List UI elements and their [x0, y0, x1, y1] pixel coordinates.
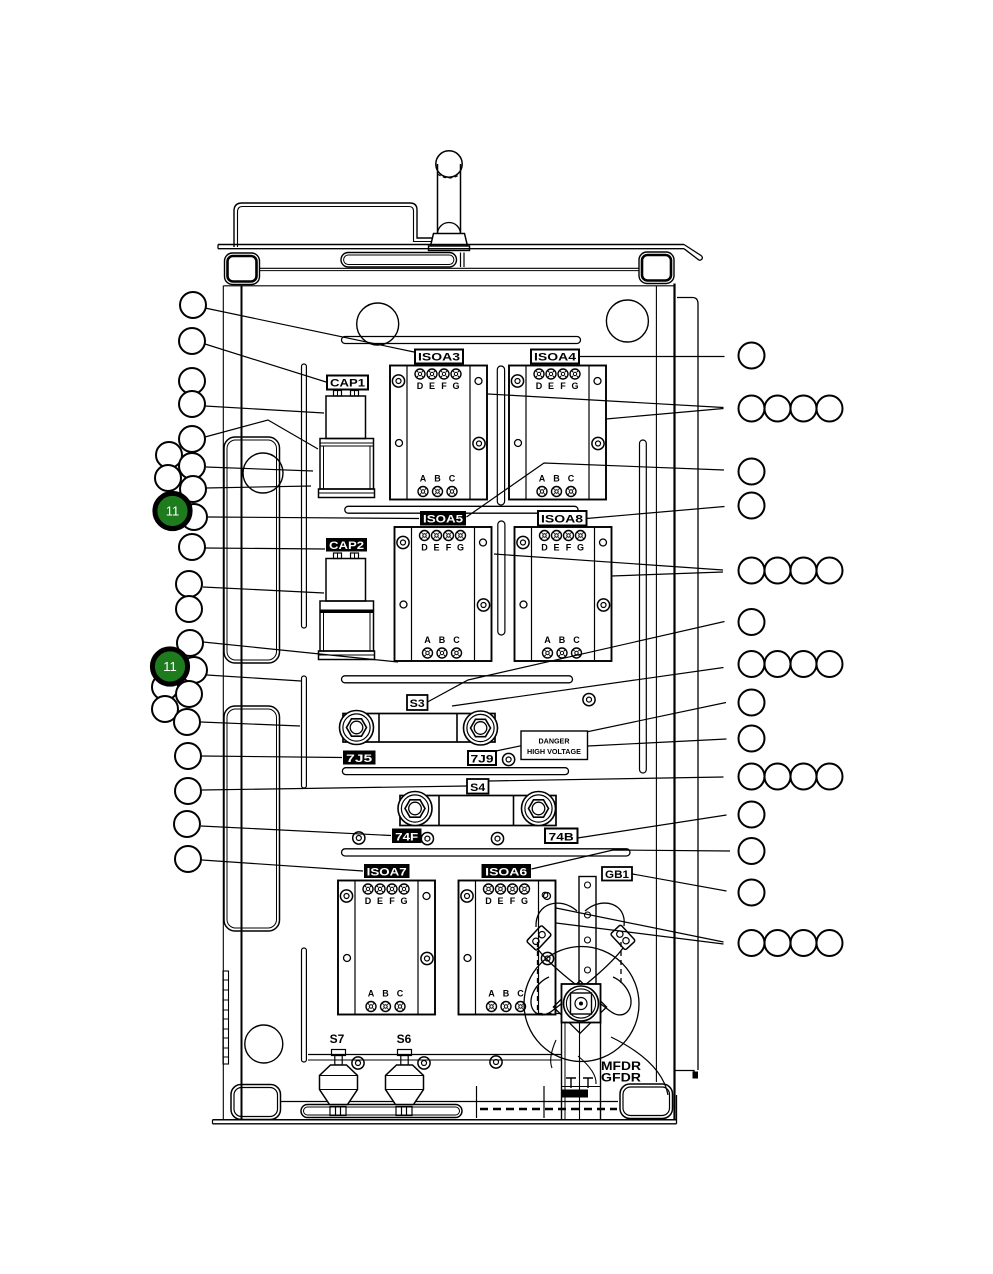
- callout circle R22: [817, 764, 843, 790]
- module ISOA4: [509, 366, 606, 500]
- GB1 clip right: [610, 925, 635, 951]
- lower left hole: [245, 1025, 283, 1063]
- label S3: [407, 695, 428, 710]
- callout circle L6: [156, 442, 182, 468]
- bottom seam left: [476, 1086, 478, 1118]
- GB1 diamond plate: [553, 981, 606, 1034]
- callout circle L10: [181, 504, 207, 530]
- leader line to CAP2 can: [203, 587, 324, 593]
- connector 7J5: [340, 711, 374, 745]
- GB1 band top line: [562, 1086, 601, 1088]
- callout circle R6: [739, 459, 765, 485]
- connector 7J9: [464, 711, 498, 745]
- GB1 wing curves: [531, 903, 631, 1015]
- callout circle L9: [180, 476, 206, 502]
- leader line to 7J5: [202, 756, 342, 758]
- svg-text:S4: S4: [470, 782, 486, 794]
- callout circle R7: [739, 493, 765, 519]
- label ISOA8: [538, 511, 587, 526]
- module ISOA8: [515, 527, 612, 661]
- callout circle R16: [817, 651, 843, 677]
- screw above danger: [583, 694, 595, 706]
- hinge strip: [223, 971, 229, 1064]
- label ISOA6: [482, 864, 532, 879]
- callout circle R2: [739, 396, 765, 422]
- leader line from S3 label: [428, 622, 725, 703]
- green callout 11 lower: [152, 649, 187, 684]
- svg-text:GB1: GB1: [605, 869, 629, 881]
- callout circle R23: [739, 802, 765, 828]
- svg-text:S7: S7: [330, 1032, 345, 1046]
- callout circle L7: [179, 453, 205, 479]
- callout circle R4: [791, 396, 817, 422]
- module ISOA7: [338, 881, 435, 1015]
- callout circle R5: [817, 396, 843, 422]
- svg-text:ISOA6: ISOA6: [485, 867, 527, 879]
- callout circle R10: [791, 558, 817, 584]
- svg-text:ISOA4: ISOA4: [534, 352, 577, 364]
- leader line to CAP2 label: [205, 548, 325, 549]
- callout circle R3: [765, 396, 791, 422]
- callout circle R14: [765, 651, 791, 677]
- callout circle L18: [152, 696, 178, 722]
- svg-text:74B: 74B: [549, 831, 574, 843]
- svg-text:GFDR: GFDR: [601, 1073, 642, 1085]
- column gap bar middle: [498, 521, 505, 635]
- svg-text:ISOA3: ISOA3: [418, 352, 460, 364]
- callout circle L12: [176, 571, 202, 597]
- callout circles right: [739, 343, 843, 957]
- capacitor CAP1: [319, 391, 375, 498]
- leader line from 7J9: [496, 703, 726, 752]
- GB1 T terminals: [566, 1078, 593, 1088]
- svg-text:7J5: 7J5: [346, 753, 372, 765]
- horizontal bar 4: [342, 768, 568, 775]
- leader line to ISOA5 label: [208, 517, 419, 519]
- screw row S4 left: [353, 832, 365, 844]
- callout circle L17: [176, 681, 202, 707]
- label ISOA4: [531, 350, 579, 364]
- insulator S7: [320, 1050, 358, 1105]
- panel left edge outer: [222, 286, 224, 1120]
- green callout 11 upper: [155, 493, 190, 528]
- label ISOA7: [364, 864, 410, 879]
- GB1 tail curve right: [611, 1037, 668, 1095]
- callout circle L20: [175, 743, 201, 769]
- svg-text:HIGH VOLTAGE: HIGH VOLTAGE: [527, 747, 581, 756]
- leader line to CAP1 bracket: [205, 420, 318, 449]
- callout circle L15: [181, 657, 207, 683]
- svg-text:CAP2: CAP2: [329, 540, 364, 552]
- top face hole right: [606, 300, 648, 342]
- link S3 bar: [343, 714, 495, 743]
- svg-text:ISOA5: ISOA5: [423, 514, 463, 526]
- callout circle L23: [175, 846, 201, 872]
- panel right edge inner: [655, 286, 657, 1082]
- leader line to CAP1 sleeve: [206, 467, 313, 471]
- callout circle L21: [175, 778, 201, 804]
- callout circle R13: [739, 651, 765, 677]
- leader line to CAP1 base: [206, 486, 311, 488]
- svg-text:S3: S3: [410, 698, 425, 710]
- callout circle R26: [739, 930, 765, 956]
- left corner bracket: [225, 253, 260, 285]
- svg-text:7J9: 7J9: [471, 754, 494, 766]
- label 74F: [392, 829, 422, 844]
- label GB1: [602, 867, 632, 881]
- leader line to ISOA7: [202, 860, 363, 871]
- label ISOA3: [415, 350, 463, 364]
- upper left door: [224, 437, 280, 663]
- bottom skid bar: [301, 1105, 462, 1118]
- top rail second line: [260, 268, 640, 270]
- callout circle R1: [739, 343, 765, 369]
- label DANGER HIGH VOLTAGE: [521, 731, 588, 760]
- screw bottom rail 2: [418, 1057, 430, 1069]
- GB1 tail curve center: [578, 1056, 596, 1084]
- label 7J9: [468, 751, 496, 766]
- callout circle R25: [739, 880, 765, 906]
- leader line from S4 label: [489, 777, 724, 781]
- column gap bar top: [497, 366, 504, 505]
- panel face top edge: [223, 285, 674, 287]
- leader line to slot bar lower: [201, 722, 300, 726]
- link S4 bar: [400, 796, 556, 826]
- S rail lower line: [308, 1059, 562, 1061]
- leader line to ISOA3: [205, 308, 414, 352]
- capacitor CAP2: [319, 553, 375, 660]
- connector 74F side: [398, 792, 432, 826]
- bottom dashed line: [480, 1108, 617, 1111]
- right flange: [675, 298, 699, 1079]
- leader line to CAP1 label: [205, 344, 326, 382]
- top face hole left: [357, 303, 399, 345]
- callout circle L4: [179, 391, 205, 417]
- svg-text:ISOA7: ISOA7: [367, 867, 407, 879]
- callout circle L8: [155, 465, 181, 491]
- insulator S6: [386, 1050, 424, 1105]
- lower left door: [224, 706, 280, 931]
- leader line to S4: [202, 786, 467, 790]
- callout circle L2: [179, 328, 205, 354]
- vertical slot bar middle: [302, 676, 307, 788]
- callout circle L14: [177, 630, 203, 656]
- GB1 clip left: [526, 925, 551, 951]
- callout circle R9: [765, 558, 791, 584]
- screw bottom rail 3: [490, 1056, 502, 1068]
- svg-text:CAP1: CAP1: [330, 378, 365, 390]
- leader line from ISOA6 rail lower: [556, 923, 724, 944]
- top handle: [234, 203, 452, 247]
- horizontal bar 3: [342, 676, 573, 683]
- GB1 black band: [562, 1090, 589, 1098]
- callout circle L5: [179, 426, 205, 452]
- leader line from danger plate: [588, 739, 727, 746]
- right corner bracket: [639, 252, 674, 284]
- GB1 channel: [562, 984, 601, 1120]
- leader line from 74B: [578, 815, 727, 838]
- callout circle R8: [739, 558, 765, 584]
- label 74B: [545, 829, 578, 844]
- vertical slot bar lower: [302, 948, 307, 1062]
- leader line from ISOA4 label: [580, 356, 725, 358]
- bottom seam right: [543, 1086, 545, 1118]
- bottom rail: [281, 1101, 618, 1103]
- leader line from ISOA5 label area: [467, 463, 725, 517]
- leader line from ISOA4 rail: [606, 409, 724, 420]
- leader line to CAP1 can: [205, 406, 324, 413]
- horizontal bar 1: [342, 337, 581, 344]
- connector 74B side: [522, 792, 556, 826]
- callout circle R24: [739, 838, 765, 864]
- GB1 channel strip: [579, 877, 596, 985]
- leader line from ISOA3 rail: [488, 394, 724, 408]
- leader line from ISOA8 label: [587, 507, 725, 519]
- GB1 motor big circle: [524, 947, 639, 1062]
- lifting cylinder: [429, 151, 470, 251]
- callout circle R20: [765, 764, 791, 790]
- screw row S4 right: [491, 833, 503, 845]
- vertical slot bar upper: [302, 364, 307, 628]
- top plate: [218, 245, 684, 249]
- callout circle R29: [817, 930, 843, 956]
- center slot: [341, 253, 464, 268]
- S7 foot nut: [330, 1107, 346, 1116]
- module ISOA6: [459, 881, 556, 1015]
- bottom plate: [213, 1095, 677, 1124]
- callout circle L19: [174, 709, 200, 735]
- module ISOA5: [395, 527, 492, 661]
- panel right edge outer: [673, 284, 675, 1121]
- label 7J5: [343, 751, 376, 766]
- small hole left of strip: [542, 892, 548, 898]
- label CAP2: [326, 538, 367, 552]
- svg-text:11: 11: [166, 504, 180, 519]
- callout circle R21: [791, 764, 817, 790]
- svg-text:MFDR: MFDR: [601, 1061, 642, 1073]
- S rail upper line: [308, 1054, 562, 1056]
- screw right of 7J9: [503, 753, 515, 765]
- leader line to 74F: [201, 826, 391, 836]
- leader line from ISOA6 label: [532, 850, 731, 869]
- right long slot bar: [640, 440, 647, 773]
- leader line from ISOA8 rail: [612, 572, 724, 576]
- upper door hole: [243, 453, 283, 493]
- horizontal bar 5: [342, 849, 631, 856]
- left foot: [231, 1085, 281, 1120]
- callout circle R17: [739, 690, 765, 716]
- label S4: [467, 779, 489, 794]
- callout circle L13: [176, 596, 202, 622]
- svg-text:S6: S6: [397, 1032, 412, 1046]
- right foot: [620, 1084, 673, 1119]
- leader line to CAP2 bracket: [203, 642, 398, 662]
- callout circle L1: [180, 292, 206, 318]
- leader line to slot bar: [207, 675, 301, 681]
- leader line from ISOA5 rail: [494, 554, 723, 570]
- module ISOA3: [390, 366, 487, 500]
- screw bottom rail 1: [352, 1057, 364, 1069]
- callout circle L16: [152, 674, 178, 700]
- callout circle L3: [179, 368, 205, 394]
- callout circles left: [152, 292, 207, 872]
- callout circle R15: [791, 651, 817, 677]
- leader line from S3 bar: [452, 668, 724, 707]
- leader line from GB1 label: [633, 874, 727, 891]
- callout circle R11: [817, 558, 843, 584]
- label ISOA5: [420, 511, 466, 526]
- svg-text:11: 11: [163, 659, 177, 674]
- leader line from ISOA6 rail upper: [556, 908, 724, 942]
- panel left edge inner: [241, 286, 243, 1120]
- callout circle R27: [765, 930, 791, 956]
- GB1 hub square: [562, 984, 601, 1023]
- GB1 tail curve left: [551, 1040, 556, 1068]
- callout circle R18: [739, 726, 765, 752]
- callout circle R28: [791, 930, 817, 956]
- callout circle L11: [179, 534, 205, 560]
- label CAP1: [327, 376, 368, 390]
- svg-text:DANGER: DANGER: [539, 737, 571, 746]
- GB1 dashed hidden lines: [538, 942, 622, 1014]
- top plate right flap: [684, 245, 702, 261]
- svg-text:74F: 74F: [395, 831, 418, 843]
- S6 foot nut: [396, 1107, 412, 1116]
- callout circle R12: [739, 609, 765, 635]
- callout circle R19: [739, 764, 765, 790]
- callout circle L22: [174, 811, 200, 837]
- svg-text:ISOA8: ISOA8: [541, 514, 583, 526]
- horizontal bar 2: [345, 506, 578, 513]
- screw row S4 mid: [421, 833, 433, 845]
